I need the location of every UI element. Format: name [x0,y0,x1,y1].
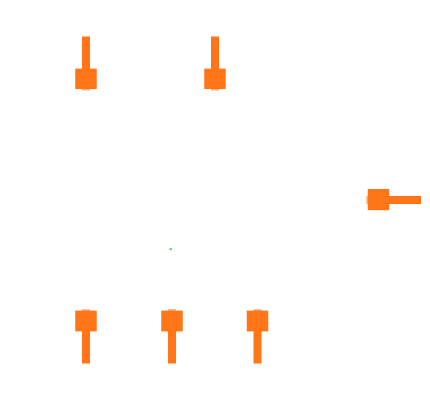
pin 5 (bottom-middle, pointing down) [161,309,183,363]
pin 2 (top-right, pointing up) [204,37,226,91]
node marker (faint green dot above bottom-middle pin) [170,248,172,250]
pin 6 (bottom-right, pointing down) [247,309,269,363]
pin 3 (right side, horizontal) [366,189,421,210]
pin 1 (top-left, pointing up) [75,37,97,91]
pin 4 (bottom-left, pointing down) [75,309,97,363]
